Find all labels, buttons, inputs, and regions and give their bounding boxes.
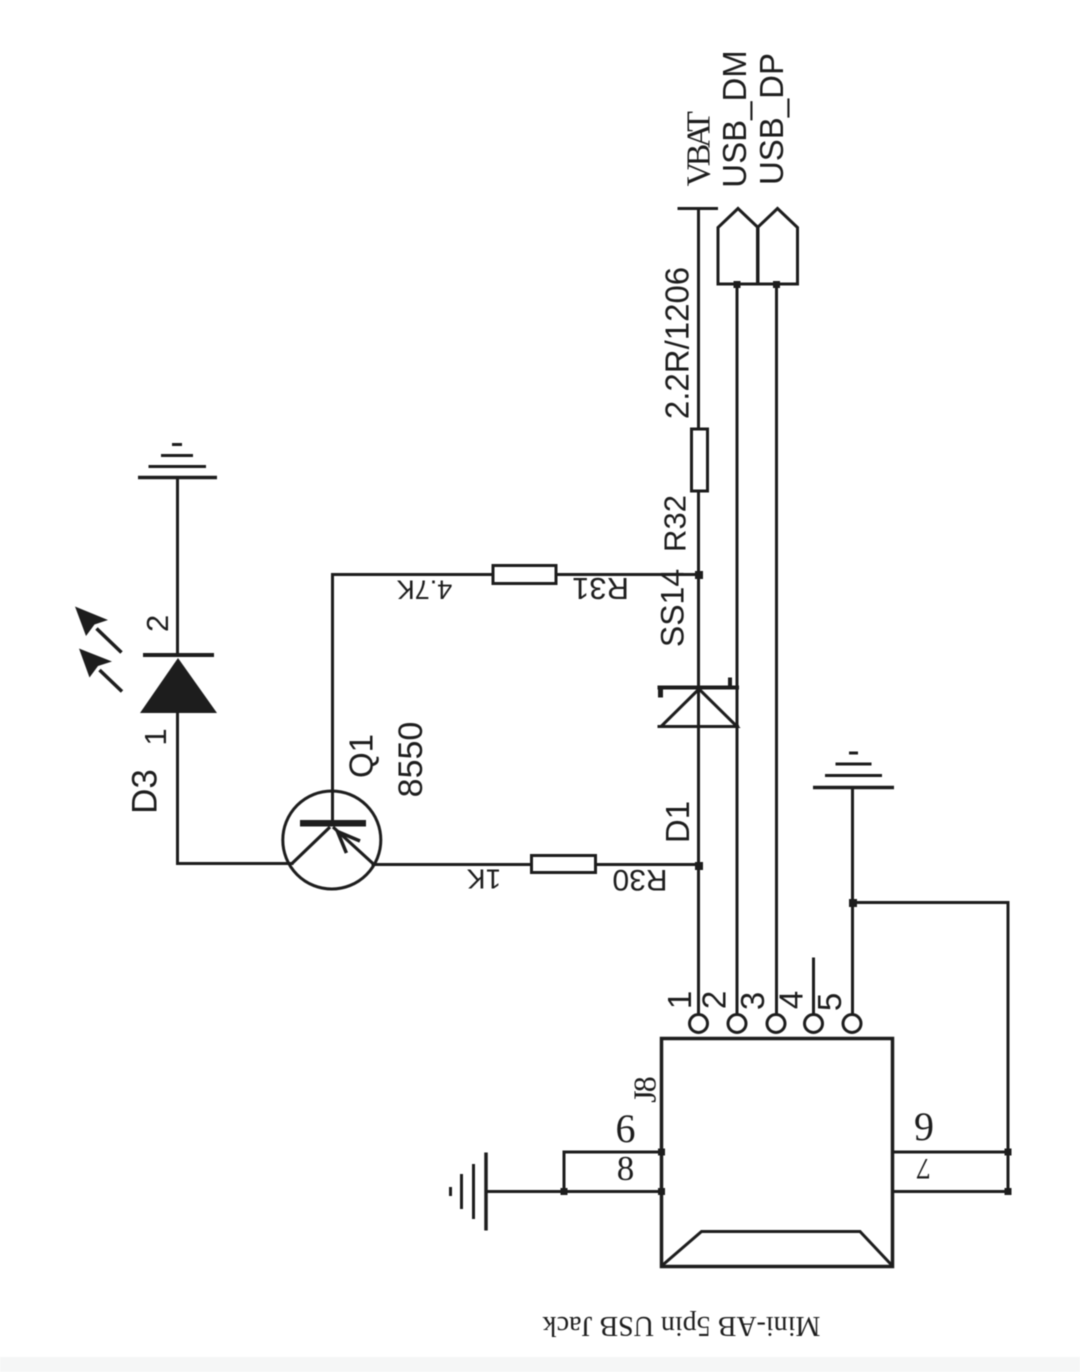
svg-text:1K: 1K <box>467 864 502 895</box>
svg-text:USB_DP: USB_DP <box>753 53 790 185</box>
svg-text:SS14: SS14 <box>655 569 691 647</box>
svg-text:4: 4 <box>773 991 810 1009</box>
svg-text:J8: J8 <box>627 1077 663 1102</box>
svg-text:D1: D1 <box>659 801 696 843</box>
svg-text:2: 2 <box>696 991 733 1009</box>
svg-text:7: 7 <box>916 1152 931 1185</box>
svg-text:6: 6 <box>616 1106 636 1151</box>
svg-text:Mini-AB 5pin USB Jack: Mini-AB 5pin USB Jack <box>543 1310 821 1341</box>
svg-text:D3: D3 <box>126 769 165 814</box>
svg-text:R30: R30 <box>612 863 667 896</box>
svg-text:1: 1 <box>138 728 173 745</box>
svg-text:R32: R32 <box>658 495 693 552</box>
svg-text:8550: 8550 <box>392 722 430 798</box>
svg-text:1: 1 <box>661 991 698 1009</box>
svg-text:VBAT: VBAT <box>681 111 718 187</box>
svg-text:R31: R31 <box>572 571 629 606</box>
svg-text:2: 2 <box>140 615 175 632</box>
svg-text:9: 9 <box>914 1104 934 1149</box>
svg-text:Q1: Q1 <box>343 734 380 778</box>
svg-text:2.2R/1206: 2.2R/1206 <box>659 267 696 419</box>
svg-text:USB_DM: USB_DM <box>716 50 753 188</box>
svg-text:8: 8 <box>617 1149 635 1188</box>
svg-text:3: 3 <box>734 992 771 1010</box>
svg-text:5: 5 <box>811 993 848 1011</box>
svg-text:4.7K: 4.7K <box>397 575 453 605</box>
